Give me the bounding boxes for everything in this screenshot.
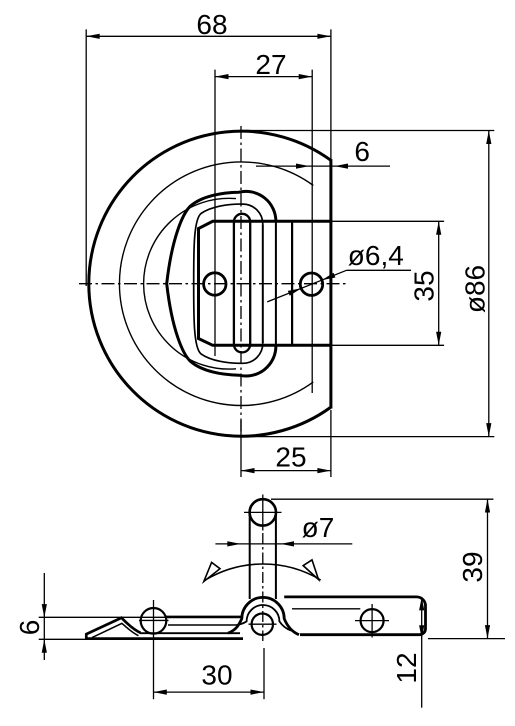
dim ø7 arrow left xyxy=(227,541,241,546)
dim ø6,4 underline xyxy=(347,269,412,271)
left hole centerline xyxy=(214,70,216,356)
dim 6 top extension xyxy=(39,616,166,618)
svg-text:ø6,4: ø6,4 xyxy=(348,240,404,271)
dim 39 arrow bottom xyxy=(485,625,490,639)
dim 68 line xyxy=(86,35,331,37)
dim 35 extension bottom xyxy=(331,344,444,346)
dim 25 line xyxy=(241,470,331,472)
dim 12 arrow down xyxy=(419,625,424,639)
left wire circle h-tick xyxy=(139,619,169,621)
plate left tab inner diagonal xyxy=(92,623,139,637)
mounting hole right (ø6,4) xyxy=(300,273,322,295)
dim 6 left arrow down xyxy=(42,604,47,618)
dim 6 left line xyxy=(43,573,45,660)
dim 12 arrow up xyxy=(419,597,424,611)
dim 68 arrow left xyxy=(86,34,100,39)
hinge pin h-tick xyxy=(249,623,277,625)
horizontal centerline xyxy=(79,283,348,285)
D-ring inner edge xyxy=(194,204,263,363)
dim 6 left extension bottom xyxy=(39,638,90,640)
left wire circle centerline xyxy=(153,600,155,699)
hinge inner arch xyxy=(237,605,292,630)
dim 30 right extension xyxy=(263,648,265,699)
ring bar left edge xyxy=(249,514,251,600)
svg-text:27: 27 xyxy=(255,49,286,80)
hinge outer arch xyxy=(228,597,299,634)
ring bar end circle xyxy=(250,499,276,525)
dim 68 arrow right xyxy=(317,34,331,39)
dim 39 line xyxy=(487,499,489,639)
dim ø6,4 leader line xyxy=(267,270,346,302)
dim 35 arrow bottom xyxy=(436,332,441,346)
dim 35 line xyxy=(438,221,440,345)
dim ø86 line xyxy=(488,131,490,437)
svg-text:30: 30 xyxy=(201,659,232,690)
rotation arrow left xyxy=(204,562,220,581)
dim ø6,4 arrow upper xyxy=(322,273,336,280)
dish outer rim arc xyxy=(119,162,313,406)
ring wire section circle right xyxy=(361,609,384,632)
svg-text:68: 68 xyxy=(196,9,227,40)
bracket outline with chamfered corners xyxy=(199,221,331,345)
svg-text:39: 39 xyxy=(457,551,488,582)
dim 27 arrow right xyxy=(299,74,313,79)
plate right top surface xyxy=(284,596,416,599)
dim ø7 arrow right xyxy=(281,541,295,546)
dim 68 extension right (flat edge ext up) xyxy=(330,29,332,159)
bracket fold line right xyxy=(291,221,293,345)
dim 39 arrow top xyxy=(485,499,490,513)
rotation swing arc xyxy=(205,564,320,580)
svg-text:ø7: ø7 xyxy=(302,512,335,543)
dim 25 arrow right xyxy=(317,468,331,473)
mounting hole left (ø6,4) xyxy=(204,273,226,295)
right wire circle v-tick xyxy=(371,604,373,638)
dim ø6,4 arrow lower xyxy=(288,288,302,295)
D-ring outer straight edge xyxy=(275,221,277,346)
svg-text:6: 6 xyxy=(14,620,45,636)
dim 12 line xyxy=(421,597,423,708)
dim 27 line xyxy=(215,76,312,78)
dim 6 line xyxy=(256,165,390,167)
plate right rounded end xyxy=(417,597,426,635)
svg-text:6: 6 xyxy=(354,136,370,167)
D-ring inner straight edge xyxy=(262,224,264,343)
dim 30 line xyxy=(153,691,264,693)
dim ø7 line xyxy=(215,543,352,545)
hinge pin circle xyxy=(252,614,273,635)
dim ø86 arrow top xyxy=(486,131,491,145)
right hole centerline xyxy=(311,70,313,393)
ring bar centerline xyxy=(262,533,264,641)
plate flat right edge xyxy=(329,159,332,408)
ring wire section circle left xyxy=(141,608,167,634)
vertical centerline xyxy=(240,126,242,440)
dim 27 arrow left xyxy=(215,74,229,79)
ring wire slot outline xyxy=(234,214,250,353)
svg-text:ø86: ø86 xyxy=(460,265,491,313)
dish inner rim arc xyxy=(144,198,236,369)
dim 25 extension left xyxy=(240,420,242,477)
dim 30 arrow right xyxy=(251,690,265,695)
dim 6 arrow right xyxy=(335,164,349,169)
dim 6 left arrow up xyxy=(42,639,47,653)
D-ring outer edge xyxy=(167,191,276,376)
dim 35 arrow top xyxy=(436,221,441,235)
ring bar end circle h-tick xyxy=(244,511,282,513)
plate left inner bottom line xyxy=(140,632,240,634)
rotation arrow right xyxy=(303,560,318,580)
dim 35 extension top xyxy=(331,220,444,222)
ring bar right edge xyxy=(275,514,277,600)
dim 6 arrow left xyxy=(296,164,310,169)
dim ø86 arrow bottom xyxy=(486,423,491,437)
dim ø86 extension bottom xyxy=(250,436,494,438)
dim 39 extension bottom xyxy=(428,638,505,640)
svg-text:12: 12 xyxy=(391,652,422,683)
plate left tab outline xyxy=(86,618,140,639)
plate right bottom xyxy=(300,633,420,636)
ring bar circle v-tick xyxy=(262,495,264,531)
svg-text:35: 35 xyxy=(409,270,440,301)
dim ø86 extension top xyxy=(246,130,494,132)
dim 39 extension top xyxy=(271,498,493,500)
plate right inner line xyxy=(292,608,360,610)
dim 25 extension right xyxy=(330,410,332,477)
dim 30 arrow left xyxy=(153,690,167,695)
dim 68 extension left xyxy=(85,29,87,286)
plate outer circle (ø86) xyxy=(89,131,331,436)
plate left top surface xyxy=(165,616,242,619)
plate left tab bottom xyxy=(85,637,243,640)
svg-text:25: 25 xyxy=(275,441,306,472)
plate left inner line xyxy=(168,624,237,626)
right wire circle h-tick xyxy=(355,620,389,622)
dim 25 arrow left xyxy=(241,468,255,473)
